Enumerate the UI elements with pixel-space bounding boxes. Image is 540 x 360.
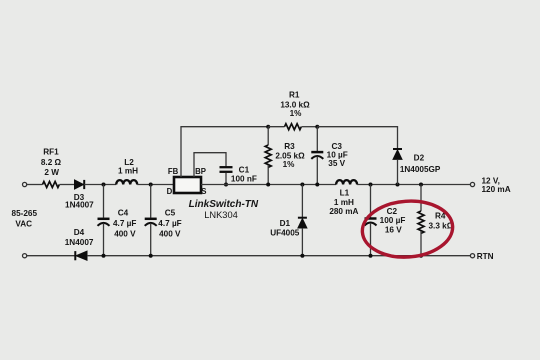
label C2 value <box>380 207 406 234</box>
diode D2 <box>393 149 402 185</box>
IC U1 LNK304 body <box>174 177 201 193</box>
svg-text:1%: 1% <box>283 160 296 169</box>
wire: top terminal to RF1 <box>27 184 43 186</box>
label D1 value <box>270 219 300 237</box>
label R3 value <box>275 142 305 169</box>
svg-text:4.7 µF: 4.7 µF <box>113 219 136 228</box>
svg-text:D4: D4 <box>74 228 85 237</box>
diode D4 <box>75 251 87 260</box>
svg-text:35 V: 35 V <box>328 159 345 168</box>
svg-text:C1: C1 <box>239 166 250 175</box>
resistor RF1 <box>43 182 60 188</box>
node: junction D1 bottom <box>300 254 304 258</box>
label C5 value <box>158 208 181 238</box>
node: junction C5 top <box>149 183 153 187</box>
wire: D3 to L2 <box>84 184 116 186</box>
node: junction R3 top <box>266 125 270 129</box>
svg-text:C2: C2 <box>387 207 398 216</box>
svg-text:4.7 µF: 4.7 µF <box>158 219 181 228</box>
capacitor C3 <box>311 127 323 185</box>
svg-text:10 µF: 10 µF <box>327 150 348 159</box>
svg-text:C5: C5 <box>165 208 176 217</box>
wire: bottom rail D4 to RTN terminal <box>87 255 470 257</box>
svg-text:S: S <box>201 187 206 196</box>
svg-text:1 mH: 1 mH <box>118 167 138 176</box>
svg-text:1N4007: 1N4007 <box>65 238 94 247</box>
svg-text:8.2 Ω: 8.2 Ω <box>41 158 62 167</box>
node: junction C1 bottom <box>224 183 228 187</box>
svg-text:D1: D1 <box>280 219 291 228</box>
label C3 value <box>327 142 348 168</box>
svg-text:D: D <box>167 187 173 196</box>
svg-text:100 nF: 100 nF <box>231 174 257 183</box>
wire: IC S pin to L1 <box>201 184 336 186</box>
svg-text:LinkSwitch-TN: LinkSwitch-TN <box>189 199 259 210</box>
svg-text:C4: C4 <box>118 208 129 217</box>
svg-text:RF1: RF1 <box>43 148 59 157</box>
svg-text:400 V: 400 V <box>114 229 136 238</box>
diode D3 <box>75 180 85 189</box>
resistor R3 <box>265 127 271 185</box>
wire: BP pin vertical <box>193 153 195 177</box>
svg-text:VAC: VAC <box>15 219 32 228</box>
wire: R1 to C3 node <box>302 126 318 128</box>
svg-text:16 V: 16 V <box>385 225 402 234</box>
node: junction C3 top <box>315 125 319 129</box>
svg-text:1N4007: 1N4007 <box>65 201 94 210</box>
svg-text:1%: 1% <box>290 109 303 118</box>
wire: FB pin vertical <box>180 127 182 177</box>
node: junction C3 bottom <box>315 183 319 187</box>
svg-text:2 W: 2 W <box>44 168 59 177</box>
capacitor C1 <box>220 167 233 184</box>
wire: FB node horizontal to R3/R1 <box>180 126 268 128</box>
highlight ellipse around C2 and R4 <box>360 198 454 260</box>
wire: C3 node to D2 corner <box>317 127 397 149</box>
svg-text:LNK304: LNK304 <box>204 210 238 220</box>
svg-text:100 µF: 100 µF <box>380 216 406 225</box>
label RF1 value <box>41 148 62 177</box>
wire: BP horizontal to C1 <box>193 153 226 167</box>
inductor L1 <box>336 180 357 184</box>
svg-text:BP: BP <box>195 167 206 176</box>
node: junction D1 top <box>300 183 304 187</box>
svg-text:1 mH: 1 mH <box>334 198 354 207</box>
node: AC input bottom terminal <box>23 254 27 258</box>
wire: L2 to IC D pin <box>137 184 174 186</box>
label D2 value <box>400 153 441 174</box>
svg-text:120 mA: 120 mA <box>482 185 511 194</box>
svg-text:D2: D2 <box>414 153 425 162</box>
label L1 value <box>329 189 358 216</box>
wire: RF1 to D3 <box>60 184 75 186</box>
node: junction C4 bottom <box>102 254 106 258</box>
wire: bottom terminal to D4 <box>27 255 75 257</box>
svg-text:FB: FB <box>168 167 179 176</box>
node: AC input top terminal <box>23 182 27 186</box>
diode D1 <box>298 185 307 256</box>
svg-text:85-265: 85-265 <box>12 209 38 218</box>
svg-text:R3: R3 <box>284 142 295 151</box>
capacitor C4 <box>98 185 110 256</box>
svg-text:400 V: 400 V <box>159 229 181 238</box>
node: 12V output terminal <box>470 182 474 186</box>
svg-text:3.3 kΩ: 3.3 kΩ <box>429 222 454 231</box>
label D4 value <box>65 228 94 247</box>
svg-text:RTN: RTN <box>477 252 494 261</box>
node: RTN terminal <box>470 254 474 258</box>
wire: node to R1 <box>268 126 284 128</box>
svg-text:L1: L1 <box>340 189 350 198</box>
svg-text:13.0 kΩ: 13.0 kΩ <box>280 100 310 109</box>
inductor L2 <box>116 180 137 184</box>
svg-text:UF4005: UF4005 <box>270 228 300 237</box>
capacitor C5 <box>145 185 157 256</box>
node: junction R4 bottom <box>419 254 423 258</box>
label L2 value <box>118 158 138 176</box>
label 85-265 VAC <box>12 209 38 228</box>
svg-text:1N4005GP: 1N4005GP <box>400 165 441 174</box>
node: junction D2 bottom <box>396 183 400 187</box>
label C4 value <box>113 208 136 238</box>
label 12V output <box>482 177 511 195</box>
label R1 value <box>280 90 310 118</box>
label C1 value <box>231 166 257 184</box>
node: junction C4 top <box>102 183 106 187</box>
label R4 value <box>429 212 454 231</box>
node: junction C5 bottom <box>149 254 153 258</box>
svg-text:R1: R1 <box>289 90 300 99</box>
node: junction R4 top <box>419 183 423 187</box>
node: junction C2 top <box>369 183 373 187</box>
node: junction R3 bottom <box>266 183 270 187</box>
wire: L1 to 12V terminal <box>357 184 470 186</box>
node: junction C2 bottom <box>369 254 373 258</box>
label D3 value <box>65 193 94 210</box>
capacitor C2 <box>365 185 377 256</box>
svg-text:280 mA: 280 mA <box>329 207 358 216</box>
resistor R1 <box>285 124 302 130</box>
resistor R4 <box>418 185 424 256</box>
